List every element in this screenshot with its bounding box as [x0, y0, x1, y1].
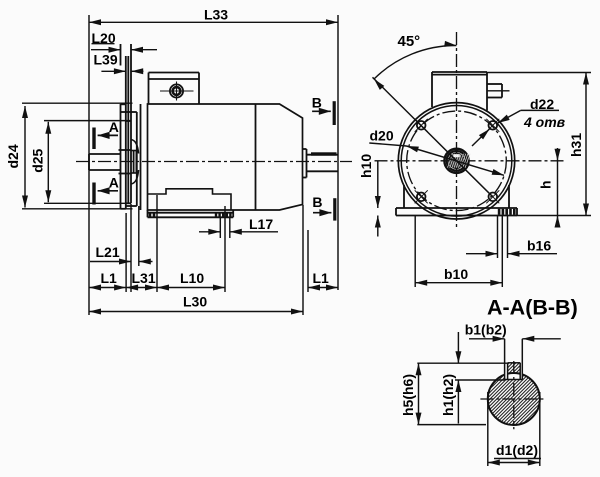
bell curve top: [131, 140, 139, 154]
extension line L17 left: [219, 217, 221, 238]
section hatch: [350, 337, 600, 461]
shaft left end: [89, 154, 121, 170]
dimension L33: [89, 7, 338, 26]
front foot right wall: [508, 185, 510, 208]
section slot clearance white: [505, 372, 523, 379]
flange hole BR: [486, 190, 499, 203]
front hub circle2: [447, 151, 467, 171]
extension line spigot lower: [130, 204, 132, 292]
svg-text:h31: h31: [568, 133, 584, 157]
svg-text:A-A(B-B): A-A(B-B): [487, 296, 578, 320]
extension line shaft right end: [337, 15, 339, 290]
svg-text:A: A: [109, 174, 119, 190]
label B top: [312, 95, 322, 111]
svg-text:h: h: [538, 180, 554, 189]
key on right shaft: [311, 152, 337, 155]
svg-text:b1(b2): b1(b2): [465, 322, 507, 338]
shaft collar right: [303, 149, 307, 178]
dimension L39: [94, 52, 144, 75]
front foot plate: [396, 208, 517, 216]
dimension L20: [91, 30, 157, 53]
svg-text:L17: L17: [249, 216, 273, 232]
front outer circle: [398, 103, 514, 219]
bell curve bottom: [131, 170, 139, 184]
dimension h5(h6): [400, 363, 422, 424]
dimension h10: [358, 154, 381, 237]
svg-text:45°: 45°: [398, 33, 421, 50]
svg-text:B: B: [312, 95, 322, 111]
flange plate back: [125, 56, 127, 209]
section mark A top: [94, 128, 118, 150]
b16 stud lines: [498, 216, 508, 288]
section key top ext: [417, 362, 507, 364]
svg-text:L39: L39: [94, 52, 118, 68]
motor body seam: [255, 104, 257, 210]
flange spigot bottom edge: [126, 202, 131, 204]
extension line d25 bottom: [44, 202, 131, 204]
dimension chain L1 L31 L10: [89, 270, 225, 291]
front hub circle: [444, 149, 468, 173]
svg-text:L10: L10: [180, 270, 204, 286]
svg-text:b10: b10: [444, 266, 468, 282]
svg-text:L1: L1: [313, 270, 330, 286]
svg-text:d22: d22: [530, 96, 554, 112]
svg-text:4 отв: 4 отв: [523, 114, 566, 130]
extension line foot right hole: [224, 206, 226, 292]
terminal box side: [149, 73, 200, 104]
extension line bell lower: [138, 206, 140, 266]
extension line d25 top: [44, 120, 131, 122]
extension line foot bottom right: [517, 215, 591, 217]
svg-text:B: B: [312, 194, 322, 210]
svg-text:L33: L33: [204, 7, 228, 23]
dimension L1 right: [308, 270, 338, 291]
extension line foot left hole: [156, 195, 158, 292]
dimension d24: [5, 106, 28, 208]
label B bottom: [312, 194, 322, 210]
svg-text:h10: h10: [358, 154, 374, 178]
endshield box right wall: [136, 112, 138, 206]
svg-text:L1: L1: [101, 270, 118, 286]
svg-text:d24: d24: [5, 144, 21, 168]
dimension d22 leader: [472, 96, 559, 146]
dimension b1(b2): [465, 322, 561, 342]
flange hole TR: [486, 119, 499, 132]
extension line box top right: [487, 72, 591, 74]
foot profile side: [148, 189, 232, 210]
flange spigot top edge: [126, 120, 131, 122]
flange hole TL: [415, 119, 428, 132]
foot pad left hatch: [149, 213, 156, 218]
extension line d24 bottom: [22, 208, 133, 210]
extension line b10 left: [414, 216, 416, 288]
section slot bottom edge: [505, 379, 523, 381]
shaft boss in bell: [131, 151, 136, 174]
dimension L17: [199, 216, 278, 235]
extension line shaft end: [88, 15, 90, 315]
dimension d20: [369, 128, 504, 176]
extension line shaft collar lower: [307, 230, 309, 292]
foot pad right hatch: [215, 213, 232, 218]
section mark B top: [312, 101, 334, 125]
svg-text:d20: d20: [370, 128, 394, 144]
45 degree arc: [374, 41, 457, 90]
svg-text:h5(h6): h5(h6): [400, 374, 416, 416]
svg-text:L20: L20: [92, 30, 116, 46]
wire centerline of side view: [76, 161, 352, 163]
svg-text:d25: d25: [29, 148, 45, 172]
shaft hub lines: [119, 150, 132, 174]
extension line d24 top: [22, 102, 133, 104]
section centerline v: [513, 361, 515, 429]
section key outline: [508, 363, 521, 380]
dimension L30: [89, 294, 303, 315]
front foot right pad hatch: [498, 209, 516, 215]
dimension d25: [29, 122, 51, 202]
flange plate face: [120, 44, 122, 209]
extension line d1 right: [539, 392, 541, 466]
flange spigot back: [130, 44, 132, 203]
section centerline h: [480, 398, 546, 400]
svg-text:d1(d2): d1(d2): [496, 442, 538, 458]
label 4 otv: [523, 114, 566, 130]
front view horizontal centerline: [375, 160, 567, 162]
front shaft circle: [448, 153, 471, 168]
terminal box front: [432, 72, 487, 111]
endshield ring line: [140, 104, 142, 210]
svg-text:b16: b16: [527, 238, 551, 254]
dimension d1(d2): [488, 442, 541, 466]
svg-text:L31: L31: [132, 270, 156, 286]
front second circle: [401, 106, 512, 217]
front bolt circle dashed: [407, 111, 507, 211]
svg-text:L30: L30: [183, 294, 207, 310]
section circle bottom ext: [417, 424, 486, 426]
cable gland: [487, 84, 510, 98]
front foot left wall: [403, 185, 405, 208]
extension line d1 left: [487, 392, 489, 466]
section shaft circle: [488, 373, 540, 425]
front view vertical centerline: [456, 32, 458, 229]
extension line L17 right: [229, 217, 231, 238]
section title: [487, 296, 578, 320]
dimension b10: [415, 266, 502, 286]
label 45: [398, 33, 421, 50]
foot base plate side: [148, 210, 234, 217]
45 degree diagonal: [373, 77, 457, 161]
label A bottom: [109, 174, 119, 190]
shaft right: [307, 155, 339, 172]
svg-text:L21: L21: [96, 244, 120, 260]
endshield box top edge: [121, 111, 137, 113]
dimension h: [538, 148, 561, 228]
label A top: [109, 119, 119, 135]
section slot bottom ext: [455, 379, 505, 381]
flange hole BL: [415, 190, 428, 203]
svg-text:h1(h2): h1(h2): [440, 374, 456, 416]
dimension b16: [466, 238, 557, 257]
section mark B bottom: [313, 198, 335, 220]
endshield box bottom edge: [126, 205, 137, 207]
flange spigot front: [127, 56, 129, 203]
motor body outline: [148, 104, 303, 210]
extension line flange back lower: [125, 213, 127, 292]
section slot walls: [505, 339, 523, 380]
flange plate top edge: [121, 103, 126, 105]
section mark A bottom: [94, 183, 118, 205]
diagonal to BR hole: [457, 161, 493, 197]
terminal box bolt: [160, 82, 194, 101]
extension line cap face lower: [302, 205, 304, 315]
dimension L21: [90, 244, 153, 265]
dimension h31: [568, 73, 589, 216]
dimension h1(h2): [440, 332, 461, 424]
flange plate bottom edge: [121, 208, 126, 210]
